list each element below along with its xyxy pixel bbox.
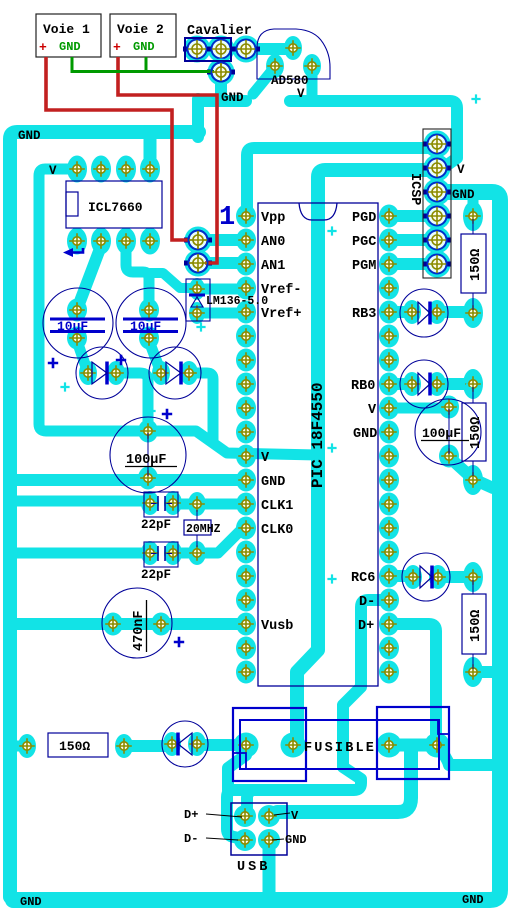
pad U1 bottom xyxy=(140,228,160,255)
svg-text:+: + xyxy=(113,40,121,55)
pad U1 bottom xyxy=(91,228,111,255)
wire GND stub from jumper pad xyxy=(215,74,227,94)
wire net D+ to fuse pad xyxy=(389,624,436,740)
svg-text:Cavalier: Cavalier xyxy=(187,24,252,39)
fuse F1 outline left box xyxy=(233,708,306,781)
svg-text:D+: D+ xyxy=(358,619,374,634)
svg-text:PGD: PGD xyxy=(352,211,376,226)
wire net AN0 xyxy=(198,234,246,246)
wire net V row to 100uF C4 xyxy=(389,403,449,414)
svg-text:RB3: RB3 xyxy=(352,307,376,322)
pad ICSP pin6 xyxy=(424,251,451,278)
wire net 150ohm R3 to GND border xyxy=(473,666,496,678)
wire net diode D1 to 100uF xyxy=(116,373,148,430)
svg-text:Vref+: Vref+ xyxy=(261,307,302,322)
wire red Voie1 + xyxy=(46,57,190,240)
diode D1 xyxy=(76,347,128,399)
pad U1 bottom xyxy=(67,228,87,255)
pad U2 pin23 xyxy=(379,613,399,636)
pad U2 pin11 xyxy=(236,445,256,468)
svg-text:20MHZ: 20MHZ xyxy=(186,523,221,536)
pad U1 top xyxy=(140,156,160,183)
connector USB outline xyxy=(231,803,287,855)
pad R column xyxy=(463,369,483,399)
wire GND row to 22pF C5 xyxy=(17,496,148,507)
pad Q1 xyxy=(188,492,206,516)
capacitor C1 10uF label xyxy=(50,319,105,332)
pad jumper J1 pin3 xyxy=(233,36,260,63)
wire net diode D7 to 150ohm R3 xyxy=(438,571,473,583)
svg-text:V: V xyxy=(291,809,299,823)
pad U2 pin17 xyxy=(236,589,256,612)
diode D4 xyxy=(162,721,208,767)
wire stub GND to resistor pad xyxy=(468,196,479,212)
regulator LM136-5.0 outline xyxy=(186,279,210,321)
wire net ICL to LM136 xyxy=(150,273,194,288)
svg-text:GND: GND xyxy=(452,188,475,202)
wire net branch to USB D+ xyxy=(247,790,253,812)
fuse F1 body outline xyxy=(240,720,439,769)
pad U2 pin21 xyxy=(379,661,399,684)
pad U2 pin32 xyxy=(379,397,399,420)
capacitor 22pF outline xyxy=(144,542,178,567)
pad Voie1 input xyxy=(185,227,212,254)
pad C7 xyxy=(151,613,171,636)
pad U2 pin12 xyxy=(236,469,256,492)
pad U2 pin9 xyxy=(236,397,256,420)
pad U1 top xyxy=(91,156,111,183)
pad U2 pin16 xyxy=(236,565,256,588)
svg-text:AN1: AN1 xyxy=(261,259,285,274)
wire GND stub to ICL7660 pin xyxy=(144,135,157,168)
svg-text:V: V xyxy=(49,164,57,178)
pad U2 pin27 xyxy=(379,517,399,540)
pad U2 pin24 xyxy=(379,589,399,612)
wire net USB GND to bus xyxy=(263,840,276,897)
svg-text:GND: GND xyxy=(59,40,81,54)
svg-text:LM136-5.0: LM136-5.0 xyxy=(206,295,268,308)
wire net 22pF C6 to crystal xyxy=(173,548,197,559)
svg-text:100µF: 100µF xyxy=(422,426,461,441)
pad C2 xyxy=(139,299,159,322)
fuse F1 outline right box xyxy=(377,707,449,779)
pad U2 pin26 xyxy=(379,541,399,564)
pad U2 pin18 xyxy=(236,613,256,636)
svg-text:Vusb: Vusb xyxy=(261,619,293,634)
pad R4 xyxy=(18,734,36,758)
svg-text:PGM: PGM xyxy=(352,259,376,274)
pad R4 xyxy=(115,734,133,758)
pad U2 pin1 xyxy=(236,205,256,228)
svg-text:Voie 2: Voie 2 xyxy=(117,22,164,37)
connector Voie 1 box xyxy=(36,14,101,57)
diode D5 xyxy=(400,289,448,337)
wire net 100uF C4 to GND border xyxy=(449,457,493,488)
svg-text:150Ω: 150Ω xyxy=(469,417,484,449)
resistor R3 150ohm outline xyxy=(462,594,486,654)
wire net RB0 to diode D6 xyxy=(389,378,412,390)
svg-text:GND: GND xyxy=(261,475,285,490)
connector Voie 2 box xyxy=(110,14,176,57)
pad D4 xyxy=(188,732,206,756)
pad U2 pin33 xyxy=(379,373,399,396)
wire V net left rail to 100uF and PIC V pin xyxy=(39,169,318,455)
wire red Voie2 + xyxy=(118,57,217,263)
svg-text:V: V xyxy=(261,451,270,466)
regulator U3 AD580 outline xyxy=(257,29,330,79)
wire fuse F1 pad bridge xyxy=(389,745,437,749)
svg-text:1: 1 xyxy=(219,203,235,233)
pad D4 xyxy=(163,732,181,756)
pad U2 pin7 xyxy=(236,349,256,372)
wire net diode D4 to fuse xyxy=(197,739,246,751)
wire GND right border + bottom GND bus xyxy=(13,192,500,900)
pad ICSP pin3 xyxy=(424,179,451,206)
pad U3 xyxy=(284,36,302,60)
wire net CLK1 crystal row xyxy=(173,499,246,510)
wire GND ICSP pin3 to border xyxy=(437,186,491,198)
capacitor C2 10uF label xyxy=(123,319,178,332)
pad R column xyxy=(463,465,483,495)
svg-text:CLK1: CLK1 xyxy=(261,499,293,514)
pad R column xyxy=(463,562,483,592)
pad ICSP pin4 xyxy=(424,203,451,230)
capacitor C7 470nF outline xyxy=(102,588,172,658)
wire GND row to 22pF C6 xyxy=(17,548,148,559)
svg-text:+: + xyxy=(39,40,47,55)
pad U2 pin13 xyxy=(236,493,256,516)
pad C5 xyxy=(141,491,159,515)
wire net PGD to ICSP pin4 xyxy=(389,210,437,222)
pad U2 pin4 xyxy=(236,277,256,300)
pad F1 xyxy=(425,733,450,758)
wire net LM136 to Vref- xyxy=(197,284,246,295)
svg-text:GND: GND xyxy=(285,833,307,847)
pad R column xyxy=(463,657,483,687)
pad U2 pin2 xyxy=(236,229,256,252)
pad C1 xyxy=(67,299,87,322)
wire GND row to PIC pin12 xyxy=(17,474,246,486)
diode D6 xyxy=(400,360,448,408)
pad U2 pin37 xyxy=(379,277,399,300)
pad U2 pin20 xyxy=(236,661,256,684)
svg-text:D+: D+ xyxy=(184,808,198,822)
svg-text:D-: D- xyxy=(359,595,375,610)
wire GND jumper riser xyxy=(198,99,246,137)
svg-text:GND: GND xyxy=(353,427,377,442)
svg-text:GND: GND xyxy=(133,40,155,54)
resistor R4 150ohm outline xyxy=(48,733,108,757)
wire net fuse to GND border xyxy=(438,748,496,765)
svg-text:Vpp: Vpp xyxy=(261,211,285,226)
diode D7 xyxy=(402,553,450,601)
pad U2 pin6 xyxy=(236,325,256,348)
pad Voie2 input xyxy=(185,250,212,277)
pad U2 pin38 xyxy=(379,253,399,276)
wire GND left border + top GND bus xyxy=(10,132,199,897)
svg-text:FUSIBLE: FUSIBLE xyxy=(304,741,376,756)
pad U2 pin5 xyxy=(236,301,256,324)
pad U2 pin36 xyxy=(379,301,399,324)
pad C2 xyxy=(139,327,159,350)
svg-text:CLK0: CLK0 xyxy=(261,523,293,538)
op-amp U1 ICL7660 outline xyxy=(66,181,162,228)
svg-text:150Ω: 150Ω xyxy=(469,610,484,642)
diode D2 xyxy=(149,347,201,399)
pad U2 pin15 xyxy=(236,541,256,564)
svg-text:USB: USB xyxy=(237,860,270,875)
wire net jumper to AD580 xyxy=(246,43,293,55)
pad U2 pin28 xyxy=(379,493,399,516)
svg-text:150Ω: 150Ω xyxy=(59,739,90,754)
jumper J1 outline xyxy=(185,38,231,61)
pad D5 xyxy=(403,300,421,324)
pad D6 xyxy=(428,372,446,396)
pad U2 pin34 xyxy=(379,349,399,372)
svg-text:D-: D- xyxy=(184,832,198,846)
pad F1 xyxy=(377,733,402,758)
svg-text:GND: GND xyxy=(221,91,244,105)
pad U2 pin40 xyxy=(379,205,399,228)
svg-text:GND: GND xyxy=(18,129,41,143)
svg-text:PGC: PGC xyxy=(352,235,376,250)
pad ICSP pin1 xyxy=(424,131,451,158)
wire net RC6 to diode D7 xyxy=(389,570,413,582)
wire V net AD580 to ICSP pin2 xyxy=(290,101,457,168)
pad C4 xyxy=(439,445,459,468)
pad U2 pin8 xyxy=(236,373,256,396)
capacitor 22pF outline xyxy=(144,492,178,517)
pad U2 pin19 xyxy=(236,637,256,660)
wire net AN1 xyxy=(198,257,246,269)
svg-text:RC6: RC6 xyxy=(351,571,375,586)
svg-text:V: V xyxy=(368,403,377,418)
pad U2 pin10 xyxy=(236,421,256,444)
wire Vpp net to ICSP pin1 xyxy=(247,148,430,216)
pad ICSP pin2 xyxy=(424,155,451,182)
pad U1 top xyxy=(67,156,87,183)
pad C6 xyxy=(141,541,159,565)
svg-text:ICSP: ICSP xyxy=(407,173,422,205)
pad F1 xyxy=(234,733,259,758)
resistor R2 150ohm outline xyxy=(462,403,486,461)
svg-text:V: V xyxy=(457,163,465,177)
wire net PGM to ICSP pin6 xyxy=(389,258,437,270)
pad U2 pin35 xyxy=(379,325,399,348)
wire net fuse stem xyxy=(228,749,246,790)
pad C1 xyxy=(67,327,87,350)
polarity marks xyxy=(471,94,480,103)
pad D2 xyxy=(180,361,198,385)
wire net R4 to diode D4 xyxy=(124,740,172,752)
pad U2 pin30 xyxy=(379,445,399,468)
svg-text:GND: GND xyxy=(20,895,42,909)
wire GND stub from AD580 pin xyxy=(253,67,275,94)
capacitor C1 10uF outline xyxy=(43,288,113,358)
pad C6 xyxy=(164,541,182,565)
svg-text:ICL7660: ICL7660 xyxy=(88,200,143,215)
wire net fuse to USB V xyxy=(270,749,411,816)
leader lines USB xyxy=(206,813,290,840)
pad U3 xyxy=(303,54,321,78)
svg-text:GND: GND xyxy=(462,893,484,907)
wire net ICL pin to 10uF C2 xyxy=(126,243,149,308)
pad C3 xyxy=(138,420,158,443)
wire net LM136 to Vref+ xyxy=(197,308,246,319)
capacitor C2 10uF outline xyxy=(116,288,186,358)
wire net PGC to ICSP pin5 xyxy=(389,234,437,246)
pad U2 pin3 xyxy=(236,253,256,276)
pad U2 pin29 xyxy=(379,469,399,492)
pad ICSP pin5 xyxy=(424,227,451,254)
pad USB D+ xyxy=(234,805,256,827)
pad C4 xyxy=(439,396,459,419)
pad C7 xyxy=(103,613,123,636)
wire net Vusb row through 470nF xyxy=(17,618,246,630)
pad D1 xyxy=(107,361,125,385)
microcontroller U2 PIC 18F4550 outline xyxy=(258,203,378,686)
pad U2 pin25 xyxy=(379,565,399,588)
pad jumper J1 pin1 xyxy=(184,36,211,63)
wire net diode D2 to V rail xyxy=(189,373,213,440)
resistor R1 150ohm outline xyxy=(461,234,486,293)
wire green GND xyxy=(72,57,214,72)
wire net RB3 to diode D5 xyxy=(389,306,412,318)
pad R column xyxy=(463,298,483,328)
pad USB GND xyxy=(258,829,280,851)
svg-text:RB0: RB0 xyxy=(351,379,375,394)
wire AD580 V stub xyxy=(307,67,318,96)
wire net ICL pin to 10uF C1 xyxy=(79,246,101,304)
wire GND stub to 150ohm R4 xyxy=(17,741,27,752)
svg-text:150Ω: 150Ω xyxy=(469,249,484,281)
pad D7 xyxy=(429,565,447,589)
svg-text:AN0: AN0 xyxy=(261,235,285,250)
pad U2 pin14 xyxy=(236,517,256,540)
pad Q1 xyxy=(188,541,206,565)
svg-text:22pF: 22pF xyxy=(141,568,171,582)
wire net D- to USB D- xyxy=(227,600,389,839)
svg-text:10µF: 10µF xyxy=(57,319,88,334)
capacitor C3 100uF outline xyxy=(110,417,186,493)
pad D2 xyxy=(152,361,170,385)
svg-text:100µF: 100µF xyxy=(126,453,167,468)
pad C5 xyxy=(164,491,182,515)
capacitor C4 100uF outline xyxy=(415,399,481,465)
wire net 10uF C1 to diode D1 xyxy=(77,341,87,370)
svg-text:10µF: 10µF xyxy=(130,319,161,334)
pad LM136 xyxy=(189,302,205,324)
pad D7 xyxy=(404,565,422,589)
svg-text:AD580: AD580 xyxy=(271,74,309,88)
svg-text:Voie 1: Voie 1 xyxy=(43,22,90,37)
pad C3 xyxy=(138,467,158,490)
pad LM136 xyxy=(189,278,205,300)
pad U3 xyxy=(266,54,284,78)
pad USB D- xyxy=(234,829,256,851)
svg-text:470nF: 470nF xyxy=(132,610,147,651)
rings over wires xyxy=(189,231,208,250)
pad D6 xyxy=(403,372,421,396)
wire net diode D6 to 150ohm R2 xyxy=(437,378,473,390)
crystal Q1 20MHZ outline xyxy=(184,520,211,535)
pad jumper J1 pin2 xyxy=(208,36,235,63)
svg-text:PIC 18F4550: PIC 18F4550 xyxy=(309,382,327,488)
pad R column xyxy=(463,201,483,231)
pad U2 pin22 xyxy=(379,637,399,660)
pad U2 pin39 xyxy=(379,229,399,252)
wire net CLK0 xyxy=(197,530,246,553)
wire V net ICSP through PIC to fuse xyxy=(297,170,433,742)
connector ICSP outline xyxy=(423,129,451,278)
pad U1 top xyxy=(116,156,136,183)
pad U1 bottom xyxy=(116,228,136,255)
svg-text:V: V xyxy=(297,87,305,101)
pad USB V xyxy=(258,805,280,827)
svg-text:22pF: 22pF xyxy=(141,518,171,532)
pin 1 marker U1 arrow xyxy=(72,248,83,253)
pad D5 xyxy=(428,300,446,324)
pad U2 pin31 xyxy=(379,421,399,444)
wire net diode D5 to 150ohm R1 xyxy=(437,306,473,318)
pad F1 xyxy=(281,733,306,758)
pad D1 xyxy=(79,361,97,385)
wire net 10uF C2 to diode D2 xyxy=(149,341,160,370)
pad jumper J1 pin4 xyxy=(208,59,235,86)
